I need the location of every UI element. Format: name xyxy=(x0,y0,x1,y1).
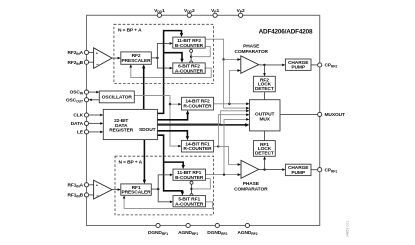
svg-text:PUMP: PUMP xyxy=(291,65,305,71)
wire RF1INA to buffer xyxy=(89,184,94,186)
svg-text:A-COUNTER: A-COUNTER xyxy=(175,202,204,208)
buffer amp RF1 xyxy=(94,180,112,199)
charge pump RF1 xyxy=(285,164,311,176)
svg-text:REGISTER: REGISTER xyxy=(109,128,134,134)
wire prescaler1 output xyxy=(151,188,158,190)
wire mux to RF1 lock detect xyxy=(264,131,266,141)
wire RF1INB to buffer xyxy=(89,194,94,196)
svg-text:DETECT: DETECT xyxy=(255,150,274,156)
pin AGND_RF2 xyxy=(237,223,257,235)
wire prescaler1 to A1 counter xyxy=(158,189,173,203)
node oscillator line junction xyxy=(169,103,171,105)
svg-text:OSCILLATOR: OSCILLATOR xyxy=(102,95,133,101)
6-bit RF2 A-counter xyxy=(173,63,205,75)
wire B2-A2 link xyxy=(190,48,192,63)
wire phase comparator 2 to RF2 lock detect xyxy=(263,65,266,76)
svg-text:B-COUNTER: B-COUNTER xyxy=(175,43,204,49)
svg-text:DETECT: DETECT xyxy=(255,86,274,92)
wire prescaler2 to B2 counter xyxy=(157,42,172,58)
wire B1 output to phase comparator 1 bottom input xyxy=(206,173,242,176)
pin MUXOUT xyxy=(318,112,345,118)
wire register bus to prescaler2 (thick) xyxy=(142,64,145,109)
svg-text:R-COUNTER: R-COUNTER xyxy=(183,146,212,152)
svg-text:PUMP: PUMP xyxy=(291,170,305,176)
node B1 output junction xyxy=(223,173,225,175)
wire CLK to register xyxy=(89,114,104,117)
wire prescaler2 output xyxy=(151,57,157,59)
svg-text:CLK: CLK xyxy=(73,113,83,119)
wire OSC_IN to oscillator xyxy=(89,91,100,94)
wire A2 modulus control to prescaler2 xyxy=(130,64,212,77)
pin RF2_INA xyxy=(68,50,89,56)
svg-text:A-COUNTER: A-COUNTER xyxy=(175,69,204,75)
pin RF2_INB xyxy=(68,60,89,66)
wire register bus riser to B2 (thick) xyxy=(157,31,183,114)
oscillator xyxy=(99,91,134,103)
svg-text:ADF4206/ADF4208: ADF4206/ADF4208 xyxy=(259,28,313,35)
wire oscillator to OSC_OUT xyxy=(89,99,100,102)
wire B2 junction to phase comparator 2 top input xyxy=(224,58,241,61)
node B1-A1 link dot xyxy=(190,188,192,190)
wire DATA to register xyxy=(89,122,104,125)
wire prescaler1 to B1 counter xyxy=(158,174,173,190)
open circle A1 top xyxy=(190,194,193,197)
wire charge pump 2 to CP_RF2 pin xyxy=(311,64,318,66)
wire SDOUT to mux input6 (thick) xyxy=(157,123,249,127)
wire LE to register xyxy=(89,131,104,134)
11-bit RF1 B-counter xyxy=(173,169,206,181)
pin CP_RF2 xyxy=(318,63,338,69)
wire register to R1 counter (thick) xyxy=(157,131,189,141)
svg-text:RF2INB: RF2INB xyxy=(68,60,84,66)
node prescaler1 output junction xyxy=(157,188,159,190)
wire B2 load loop xyxy=(191,47,210,57)
wire B1-A1 link xyxy=(191,180,193,195)
RF2 prescaler xyxy=(121,52,152,64)
wire phase comparator 2 output xyxy=(259,64,265,66)
node B2-A2 link dot xyxy=(190,56,192,58)
svg-text:RF1INA: RF1INA xyxy=(68,182,84,188)
pin AGND_RF1 xyxy=(178,223,198,235)
pin DGND_RF1 xyxy=(148,223,168,235)
node R2 output junction xyxy=(228,103,230,105)
wire phase comparator 1 to RF1 lock detect xyxy=(263,156,266,169)
14-bit RF2 R-counter xyxy=(182,97,214,110)
svg-text:COMPARATOR: COMPARATOR xyxy=(234,187,268,193)
pin DATA xyxy=(71,121,89,127)
RF2 lock detect xyxy=(253,76,275,92)
svg-text:RF2INA: RF2INA xyxy=(68,50,84,56)
svg-text:SDOUT: SDOUT xyxy=(139,127,156,133)
svg-text:04853-001: 04853-001 xyxy=(346,221,350,237)
open circle B1 bottom xyxy=(190,181,193,184)
wire register to R2 counter (thick) xyxy=(157,110,189,120)
pin CLK xyxy=(73,113,88,119)
charge pump RF2 xyxy=(285,59,311,71)
pin OSC_IN xyxy=(70,90,89,96)
11-bit RF2 B-counter xyxy=(173,37,205,49)
wire RF2INA to buffer xyxy=(89,51,94,53)
wire R1 output xyxy=(214,145,219,147)
pin VDD2 xyxy=(184,8,195,18)
wire oscillator trunk to R1 counter xyxy=(170,104,181,147)
svg-text:R-COUNTER: R-COUNTER xyxy=(183,103,212,109)
wire mux to MUXOUT pin xyxy=(280,113,318,115)
22-bit data register xyxy=(103,109,157,139)
wire buffer2 to prescaler2 xyxy=(112,57,121,60)
svg-text:RF1INB: RF1INB xyxy=(68,193,84,199)
dashed box N=BP+A RF2 xyxy=(114,24,213,83)
wire to charge pump 1 xyxy=(265,168,286,171)
wire B1 load loop xyxy=(192,179,211,189)
wire R1 junction to phase comparator 1 top input xyxy=(218,146,241,166)
pin OSC_OUT xyxy=(66,97,89,103)
pin RF1_INA xyxy=(68,182,89,188)
5-bit RF1 A-counter xyxy=(173,196,206,208)
wire oscillator output to R2 counter xyxy=(134,96,181,106)
pin VP2 xyxy=(237,8,245,18)
wire B1 junction up to mux input5 xyxy=(224,118,250,175)
svg-text:PHASE: PHASE xyxy=(243,181,260,187)
open circle B2 bottom xyxy=(190,49,193,52)
wire R2 junction to phase comparator 2 bottom input xyxy=(229,69,240,104)
wire buffer1 to prescaler1 xyxy=(112,188,121,191)
wire R2 output to mux input1 xyxy=(214,102,250,105)
chip outer border xyxy=(87,15,320,225)
svg-text:MUX: MUX xyxy=(259,116,270,122)
wire to charge pump 2 xyxy=(265,64,286,67)
open circle A2 top xyxy=(190,61,193,64)
wire register bus to RF1 counters (thick) xyxy=(157,135,184,195)
wire R1 junction up to mux input4 xyxy=(218,113,249,146)
wire B2 output xyxy=(205,39,223,59)
svg-text:PRESCALER: PRESCALER xyxy=(122,190,152,196)
wire register bus branch to A2 (thick) xyxy=(164,53,184,63)
svg-text:MUXOUT: MUXOUT xyxy=(325,112,346,118)
phase comparator RF2 xyxy=(234,44,268,74)
svg-text:B-COUNTER: B-COUNTER xyxy=(175,175,204,181)
wire prescaler2 to A2 counter xyxy=(157,58,172,70)
svg-text:COMPARATOR: COMPARATOR xyxy=(234,49,268,55)
wire B2 junction down to mux input2 xyxy=(224,60,250,110)
dashed box N=BP+A RF1 xyxy=(115,156,214,215)
RF1 lock detect xyxy=(254,141,276,157)
pin RF1_INB xyxy=(68,193,89,199)
node prescaler2 output junction xyxy=(156,57,158,59)
title ADF4206/ADF4208 xyxy=(259,28,313,35)
node phase comparator 2 junction xyxy=(263,64,265,66)
svg-text:N = BP + A: N = BP + A xyxy=(119,160,143,166)
output mux xyxy=(250,100,281,131)
wire register to mux input3 xyxy=(157,109,249,123)
pin VP1 xyxy=(211,8,219,18)
14-bit RF1 R-counter xyxy=(181,140,213,152)
pin VDD1 xyxy=(154,8,165,18)
pin DGND_RF2 xyxy=(207,223,227,235)
phase comparator RF1 xyxy=(234,160,268,192)
pin CP_RF1 xyxy=(318,167,338,173)
node phase comparator 1 junction xyxy=(263,168,265,170)
svg-text:PRESCALER: PRESCALER xyxy=(122,58,152,64)
figure code xyxy=(346,221,350,237)
svg-text:−: − xyxy=(96,194,99,199)
wire register bus branch to B1 (thick) xyxy=(164,162,185,169)
pin LE xyxy=(77,130,89,136)
node R1 output junction xyxy=(217,145,219,147)
wire phase comparator 1 output xyxy=(259,169,265,171)
svg-text:N = BP + A: N = BP + A xyxy=(118,27,142,33)
svg-text:LE: LE xyxy=(77,130,84,136)
svg-text:DATA: DATA xyxy=(71,121,84,127)
wire RF2INB to buffer xyxy=(89,61,94,63)
wire A1 modulus control to prescaler1 xyxy=(123,195,213,208)
wire register to prescaler1 (thick) xyxy=(143,140,146,184)
RF1 prescaler xyxy=(121,184,152,196)
svg-text:PHASE: PHASE xyxy=(243,44,260,50)
wire charge pump 1 to CP_RF1 pin xyxy=(311,169,318,171)
wire RF2 lock detect to mux xyxy=(264,92,266,100)
buffer amp RF2 xyxy=(94,48,112,69)
node B2 output junction xyxy=(222,58,224,60)
svg-text:−: − xyxy=(96,62,99,67)
